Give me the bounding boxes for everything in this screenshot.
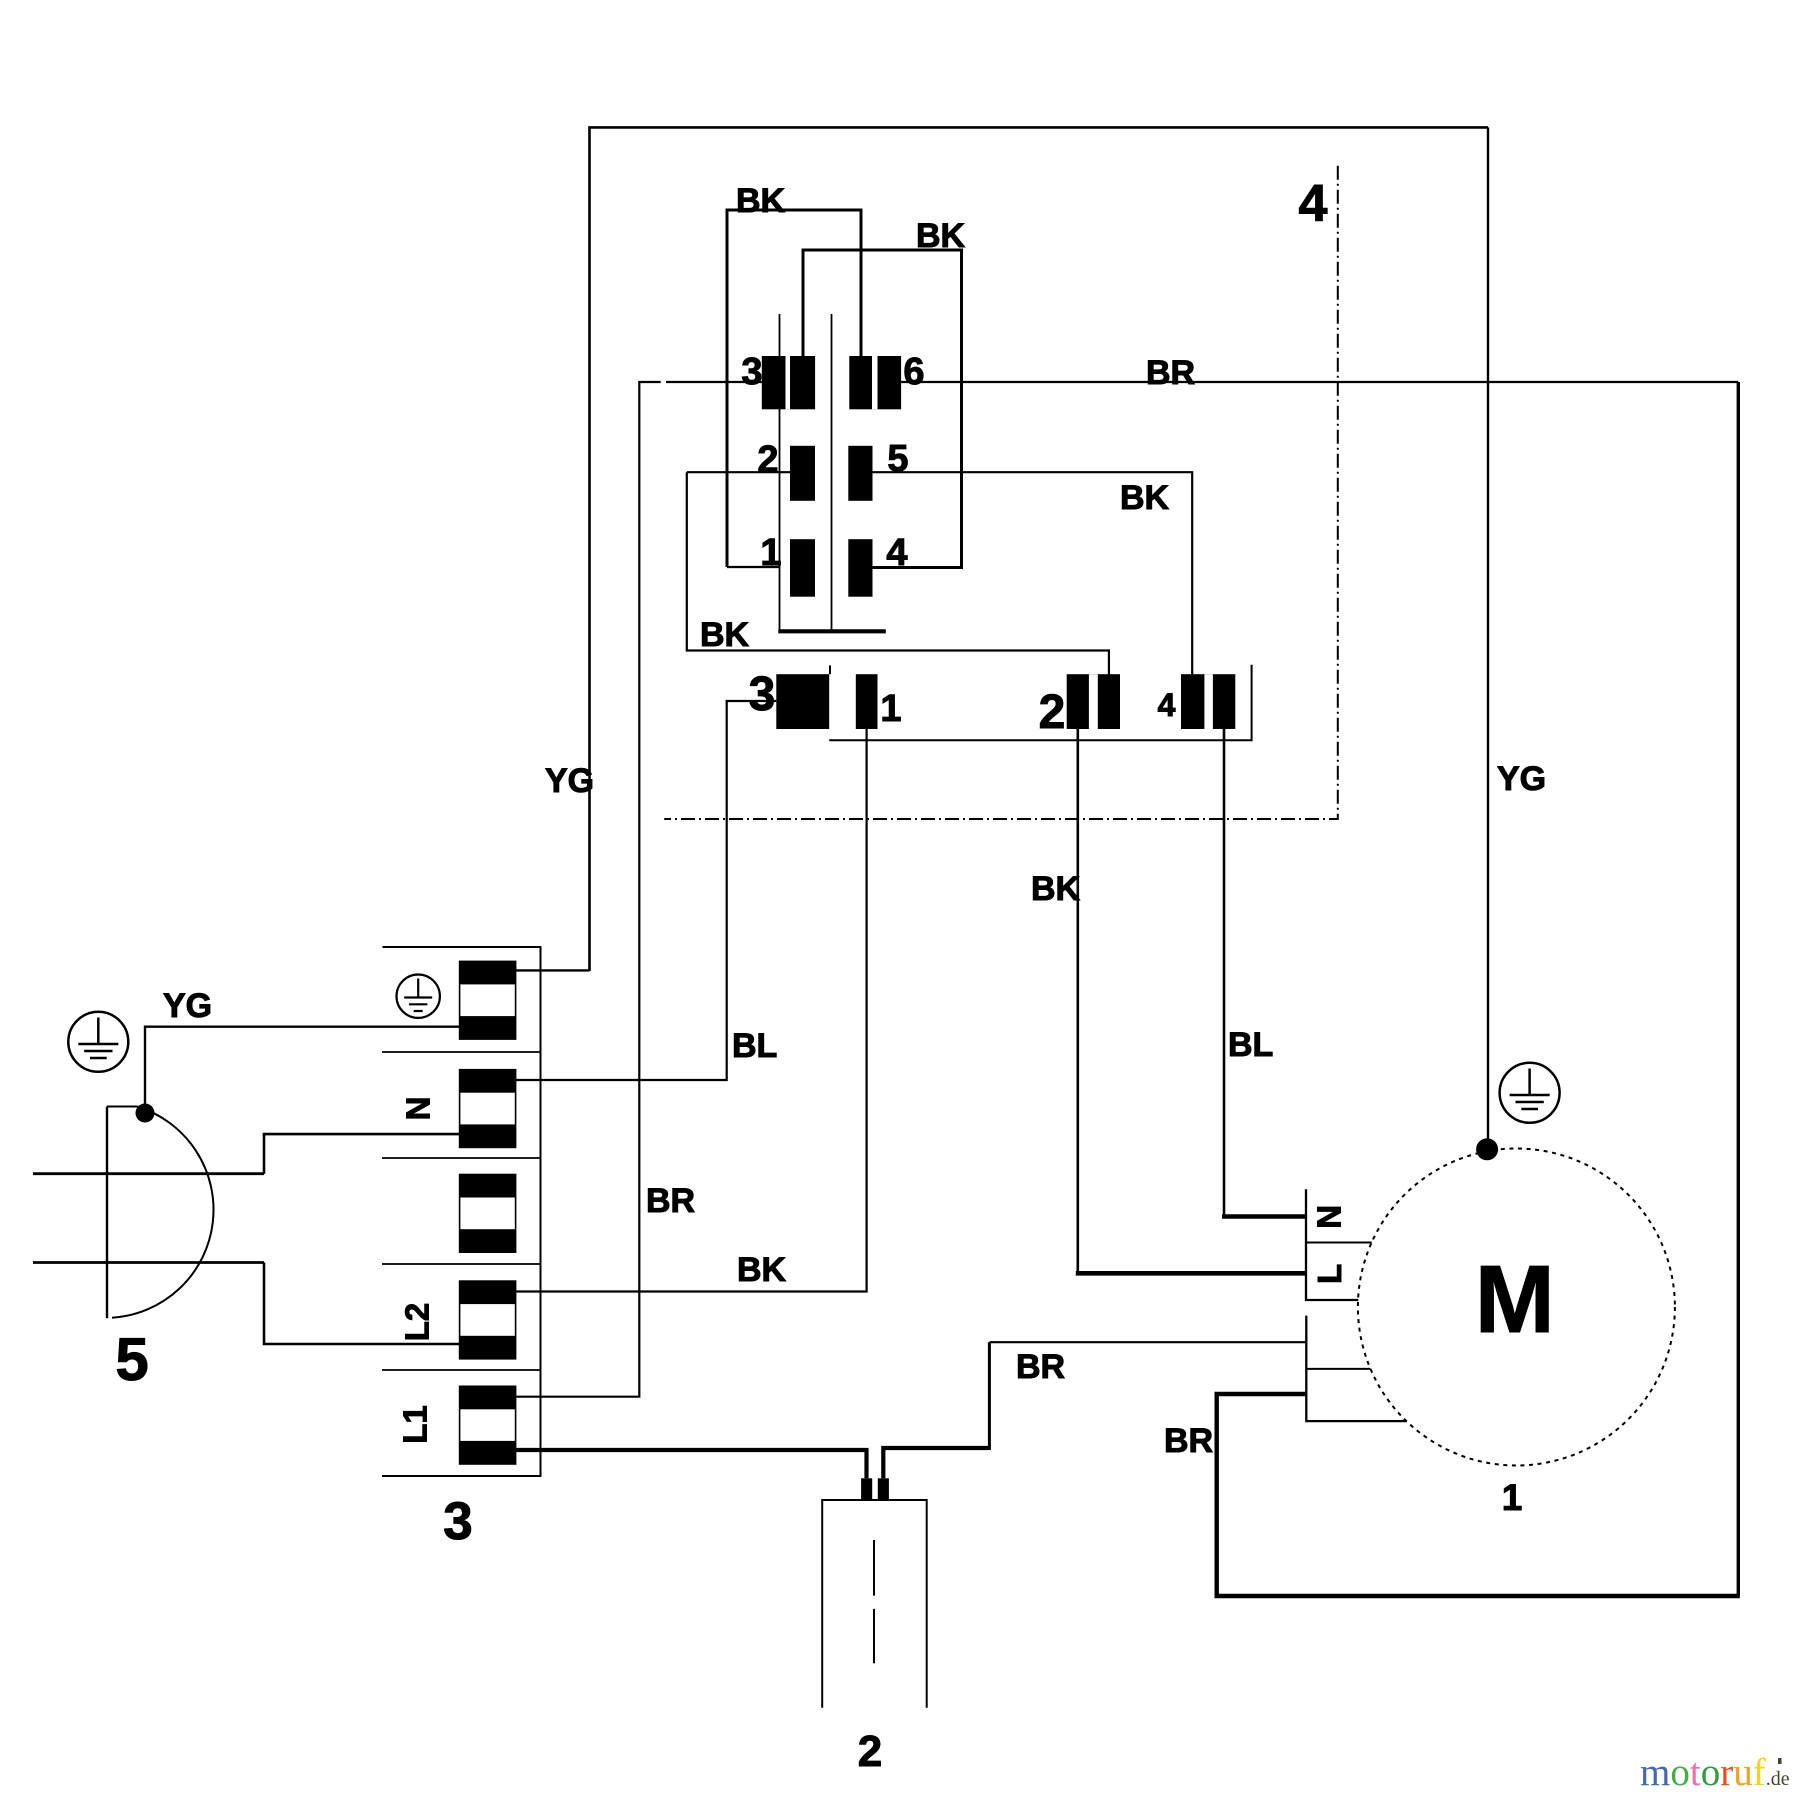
svg-text:BK: BK [737, 1251, 787, 1289]
svg-text:N: N [399, 1097, 436, 1121]
terminal (middle, unlabeled) [460, 1175, 516, 1253]
wire: BR loop from switch pin6 right around to motor [901, 382, 1740, 1596]
switch contact 6 [849, 356, 901, 409]
wire: switch pin5 to lower connector pin4 [873, 472, 1193, 677]
plug ground symbol [68, 1012, 128, 1072]
svg-text:YG: YG [545, 762, 594, 800]
svg-text:YG: YG [163, 987, 212, 1025]
svg-text:6: 6 [903, 351, 924, 393]
wire: BR thick into motor lower terminal [1215, 1392, 1307, 1397]
svg-text:5: 5 [115, 1326, 148, 1393]
terminal N [460, 1070, 516, 1148]
svg-text:L2: L2 [399, 1303, 436, 1342]
svg-text:BL: BL [1228, 1026, 1273, 1064]
terminal L1 [460, 1386, 516, 1464]
capacitor pin left [861, 1478, 872, 1500]
wire: BR L1 terminal to capacitor left pin [516, 1450, 867, 1478]
svg-text:BK: BK [1120, 479, 1170, 517]
switch contact 4 [848, 539, 872, 597]
wire: BK jumper switch pin3 to pin4 [803, 250, 962, 568]
svg-text:YG: YG [1497, 760, 1546, 798]
wire: BR capacitor right pin to motor [883, 1342, 1306, 1478]
lower connector outline [829, 665, 1251, 741]
wire: BK from L2 terminal up to lower connector pin1 [516, 729, 867, 1292]
svg-text:L: L [1311, 1264, 1348, 1284]
wire: BL plug to N terminal [264, 1134, 460, 1174]
svg-text:1: 1 [1502, 1477, 1523, 1518]
wire: YG from plug to gnd terminal [145, 1027, 460, 1113]
lower connector pin1 contact [856, 674, 878, 729]
svg-text:L1: L1 [397, 1405, 434, 1444]
wire: BK jumper switch pin1 to pin6 [727, 210, 861, 567]
switch contact 1 [790, 539, 815, 597]
lower connector pin2 contact [1067, 674, 1120, 729]
svg-text:BK: BK [916, 217, 966, 255]
switch contact 3 [762, 356, 815, 409]
svg-text:BK: BK [700, 616, 750, 654]
capacitor center dashed line [873, 1540, 875, 1663]
dash-dot section line 4 [664, 166, 1338, 819]
terminal PE (ground) [460, 961, 516, 1039]
wire: gnd terminal to outer YG loop [516, 969, 590, 971]
svg-text:2: 2 [1039, 686, 1066, 739]
svg-text:motoruf.de: motoruf.de [1640, 1751, 1790, 1794]
motor ground symbol [1500, 1063, 1560, 1123]
svg-text:BR: BR [1164, 1422, 1213, 1460]
ground symbol at terminal block [397, 975, 440, 1018]
plug body [107, 1107, 214, 1319]
motor ground junction dot [1476, 1138, 1498, 1160]
svg-text:BL: BL [732, 1027, 777, 1065]
terminal block separator 4 [382, 1369, 541, 1371]
wire: switch pin2 left segment [687, 471, 790, 473]
motor N-L terminal block [1306, 1189, 1372, 1300]
svg-text:2: 2 [858, 1727, 882, 1776]
switch contact 5 [848, 446, 872, 501]
svg-text:4: 4 [1158, 687, 1176, 723]
capacitor pin right [878, 1478, 889, 1500]
svg-text:4: 4 [1299, 175, 1328, 233]
wire: BK switch pin2 down to lower connector pin2 [687, 472, 1109, 674]
terminal block separator 2 [382, 1157, 541, 1159]
plug prong lower [33, 1261, 264, 1264]
terminal L2 [460, 1281, 516, 1359]
wire: BK lower connector pin2 down to motor L [1076, 729, 1307, 1273]
svg-text:1: 1 [880, 688, 901, 730]
lower connector pin3 stub [829, 665, 831, 674]
junction dot on plug [136, 1104, 155, 1123]
svg-text:3: 3 [443, 1492, 472, 1551]
svg-text:3: 3 [741, 351, 762, 393]
motoruf.de logo [1640, 1751, 1790, 1794]
plug prong upper [33, 1172, 264, 1175]
svg-text:2: 2 [757, 439, 778, 481]
svg-text:3: 3 [749, 668, 776, 721]
svg-text:BR: BR [1146, 354, 1195, 392]
wire: BL from N terminal to lower connector pin3 [516, 701, 777, 1080]
terminal block 3 outline [382, 947, 541, 1476]
lower connector pin4 contact [1181, 674, 1235, 729]
wire: BR from switch pin3 left, down to L1 terminal [516, 382, 762, 1397]
wire: outer YG loop top border [590, 127, 1489, 971]
lower connector pin3 contact [776, 674, 829, 729]
svg-text:BR: BR [646, 1182, 695, 1220]
svg-text:5: 5 [887, 438, 908, 480]
switch contact 2 [790, 446, 815, 501]
terminal block separator 1 [382, 1051, 541, 1053]
svg-text:BK: BK [736, 182, 786, 220]
switch actuator bar [778, 314, 886, 631]
capacitor body [822, 1500, 927, 1708]
wire: YG right vertical to motor ground [1487, 127, 1489, 1149]
motor lower terminal block [1306, 1316, 1406, 1422]
wire: BL lower connector pin4 down to motor N [1222, 729, 1306, 1217]
svg-text:4: 4 [886, 532, 907, 574]
svg-text:1: 1 [760, 532, 781, 574]
svg-text:BR: BR [1016, 1348, 1065, 1386]
motor circle M [1358, 1149, 1675, 1466]
terminal block separator 3 [382, 1263, 541, 1265]
svg-text:N: N [1311, 1205, 1348, 1229]
wire: BK plug to L2 terminal [264, 1263, 460, 1345]
svg-text:BK: BK [1031, 870, 1081, 908]
svg-text:M: M [1475, 1246, 1555, 1353]
